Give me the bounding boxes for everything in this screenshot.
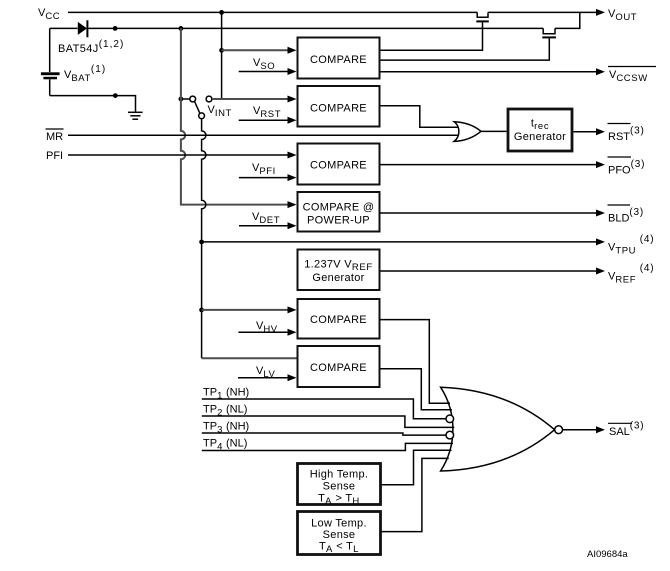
svg-text:COMPARE: COMPARE bbox=[310, 54, 367, 66]
ground bbox=[128, 111, 143, 113]
comparator U5 (HV) bbox=[298, 299, 380, 339]
wire TP1 to NOR bbox=[202, 399, 446, 419]
wire COMPARE6 to NOR bbox=[381, 369, 452, 410]
wire VTPU bbox=[202, 241, 597, 243]
output bubble NOR1 bbox=[555, 426, 563, 434]
svg-text:Generator: Generator bbox=[514, 131, 566, 143]
inverted input bubble TP1 bbox=[446, 415, 454, 423]
wire VINT to COMPARE2 plus input bbox=[212, 98, 288, 100]
block low temp sense bbox=[298, 512, 381, 555]
svg-text:Sense: Sense bbox=[323, 529, 356, 541]
arrow VOUT bbox=[596, 9, 605, 16]
block VREF generator bbox=[298, 250, 380, 291]
svg-text:AI09684a: AI09684a bbox=[587, 549, 628, 560]
block high temp sense bbox=[298, 464, 381, 505]
svg-text:COMPARE @: COMPARE @ bbox=[303, 202, 375, 214]
arrow into COMPARE4 plus input bbox=[288, 201, 297, 208]
svg-text:Low Temp.: Low Temp. bbox=[311, 518, 367, 530]
wire PFO output bbox=[381, 164, 597, 166]
wire RST output bbox=[574, 131, 597, 133]
svg-text:Generator: Generator bbox=[312, 272, 364, 284]
junction on diode line bbox=[113, 26, 118, 31]
wire battery negative to ground bbox=[50, 96, 136, 112]
junction VCC drop to COMPARE1 branch bbox=[219, 48, 224, 53]
wire to COMPARE6 top input bbox=[202, 357, 297, 359]
wire to COMPARE5 plus input bbox=[202, 309, 288, 311]
wire Q2 drain to VOUT bbox=[555, 12, 580, 28]
node PFO label bbox=[608, 156, 632, 158]
svg-text:COMPARE: COMPARE bbox=[310, 160, 367, 172]
switch VINT bbox=[179, 97, 184, 102]
comparator U6 (LV) bbox=[298, 346, 380, 387]
comparator U3 (PFI) bbox=[298, 144, 380, 185]
junction on VCC rail bbox=[219, 10, 224, 15]
wire VPFI input bbox=[239, 177, 288, 179]
wire BLD output bbox=[381, 212, 597, 214]
node VCCSW label bbox=[608, 66, 656, 68]
wire COMPARE1 to Q1 gate bbox=[381, 22, 483, 50]
wire COMPARE5 to NOR bbox=[381, 320, 451, 404]
node BLD label bbox=[608, 204, 631, 206]
wire to COMPARE1 plus input bbox=[222, 49, 288, 51]
wire COMPARE2 to OR1 input bbox=[381, 106, 459, 128]
junction VTPU branch bbox=[199, 240, 204, 245]
wire VREF output bbox=[381, 270, 597, 272]
comparator U4 (power-up) bbox=[298, 192, 380, 232]
svg-text:POWER-UP: POWER-UP bbox=[307, 215, 370, 227]
junction diode line to VINT left leg bbox=[179, 26, 184, 31]
or-gate OR1 bbox=[454, 122, 481, 142]
transistor Q2 bbox=[543, 28, 555, 33]
wire VINT right leg with hops bbox=[202, 119, 206, 358]
wire VDET input bbox=[239, 225, 288, 227]
wire VINT left leg with hops bbox=[181, 28, 288, 204]
wire TP3 to NOR bbox=[202, 433, 446, 435]
wire VRST input bbox=[239, 119, 288, 121]
wire VHV input bbox=[238, 331, 288, 333]
svg-text:COMPARE: COMPARE bbox=[310, 314, 367, 326]
node SAL label bbox=[608, 422, 632, 424]
comparator U1 (SO) bbox=[298, 38, 380, 79]
svg-text:COMPARE: COMPARE bbox=[310, 103, 367, 115]
wire VSO input bbox=[239, 71, 288, 73]
wire high temp to NOR bbox=[382, 450, 452, 485]
wire PFI to COMPARE3 bbox=[68, 154, 288, 156]
battery VBAT bbox=[49, 28, 51, 72]
wire VCC drop to switch bbox=[221, 12, 223, 99]
wire COMPARE1 to Q2 gate bbox=[381, 38, 550, 60]
wire diode cathode to Q2 bbox=[88, 27, 543, 29]
svg-text:High Temp.: High Temp. bbox=[310, 469, 368, 481]
nor-gate NOR1 bbox=[441, 387, 555, 471]
inverted input bubble TP3 bbox=[446, 431, 454, 439]
wire low temp to NOR bbox=[382, 458, 449, 531]
diode D1 BAT54J bbox=[50, 27, 78, 29]
wire MR bbox=[68, 134, 458, 136]
junction on ground wire bbox=[113, 93, 118, 98]
node RST label bbox=[608, 123, 631, 125]
svg-text:Sense: Sense bbox=[323, 481, 356, 493]
wire SAL output bbox=[563, 429, 597, 431]
wire VCC rail left bbox=[68, 11, 477, 13]
wire TP2 to NOR bbox=[202, 416, 454, 427]
transistor Q1 bbox=[477, 12, 488, 17]
junction COMPARE5 branch bbox=[199, 308, 204, 313]
comparator U2 (RST) bbox=[298, 86, 380, 127]
wire VLV input bbox=[238, 377, 288, 379]
wire OR1 to trec generator bbox=[481, 130, 507, 132]
wire VCC rail right to VOUT bbox=[488, 11, 597, 13]
svg-text:PFI: PFI bbox=[46, 150, 63, 162]
svg-text:COMPARE: COMPARE bbox=[310, 362, 367, 374]
block trec generator bbox=[508, 109, 572, 151]
svg-text:MR: MR bbox=[46, 131, 63, 143]
wire VCCSW bbox=[381, 71, 597, 73]
wire TP4 to NOR bbox=[202, 443, 453, 450]
